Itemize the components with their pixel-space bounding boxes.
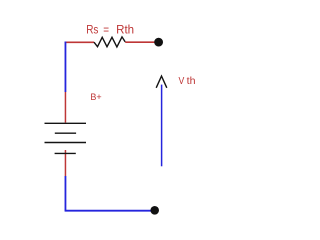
- wire: top horizontal red (left lead of resistor): [65, 41, 94, 43]
- svg-text:Rs: Rs: [86, 24, 98, 36]
- svg-text:V: V: [179, 75, 185, 87]
- wire: bottom horizontal blue: [65, 210, 151, 212]
- svg-text:Rth: Rth: [116, 24, 134, 36]
- label V th: [179, 75, 196, 87]
- wire: top horizontal red (right lead of resistor): [125, 41, 155, 43]
- svg-text:th: th: [187, 75, 196, 87]
- arrow Vth: black open arrowhead: [156, 76, 167, 88]
- svg-text:=: =: [103, 24, 109, 36]
- svg-text:B+: B+: [90, 92, 101, 102]
- terminal node: top right dot: [154, 38, 163, 47]
- battery B+: [45, 123, 87, 153]
- wire: red segment below battery: [64, 150, 66, 176]
- label Rs = Rth: [86, 24, 134, 36]
- resistor Rs = Rth (zigzag body): [94, 37, 125, 47]
- wire: left vertical blue segment (top): [64, 42, 66, 93]
- terminal node: bottom right dot: [150, 206, 159, 215]
- wire: left vertical red segment down to battery: [64, 92, 66, 123]
- wire: left vertical blue segment (bottom): [64, 176, 66, 211]
- arrow Vth: blue shaft: [161, 85, 163, 167]
